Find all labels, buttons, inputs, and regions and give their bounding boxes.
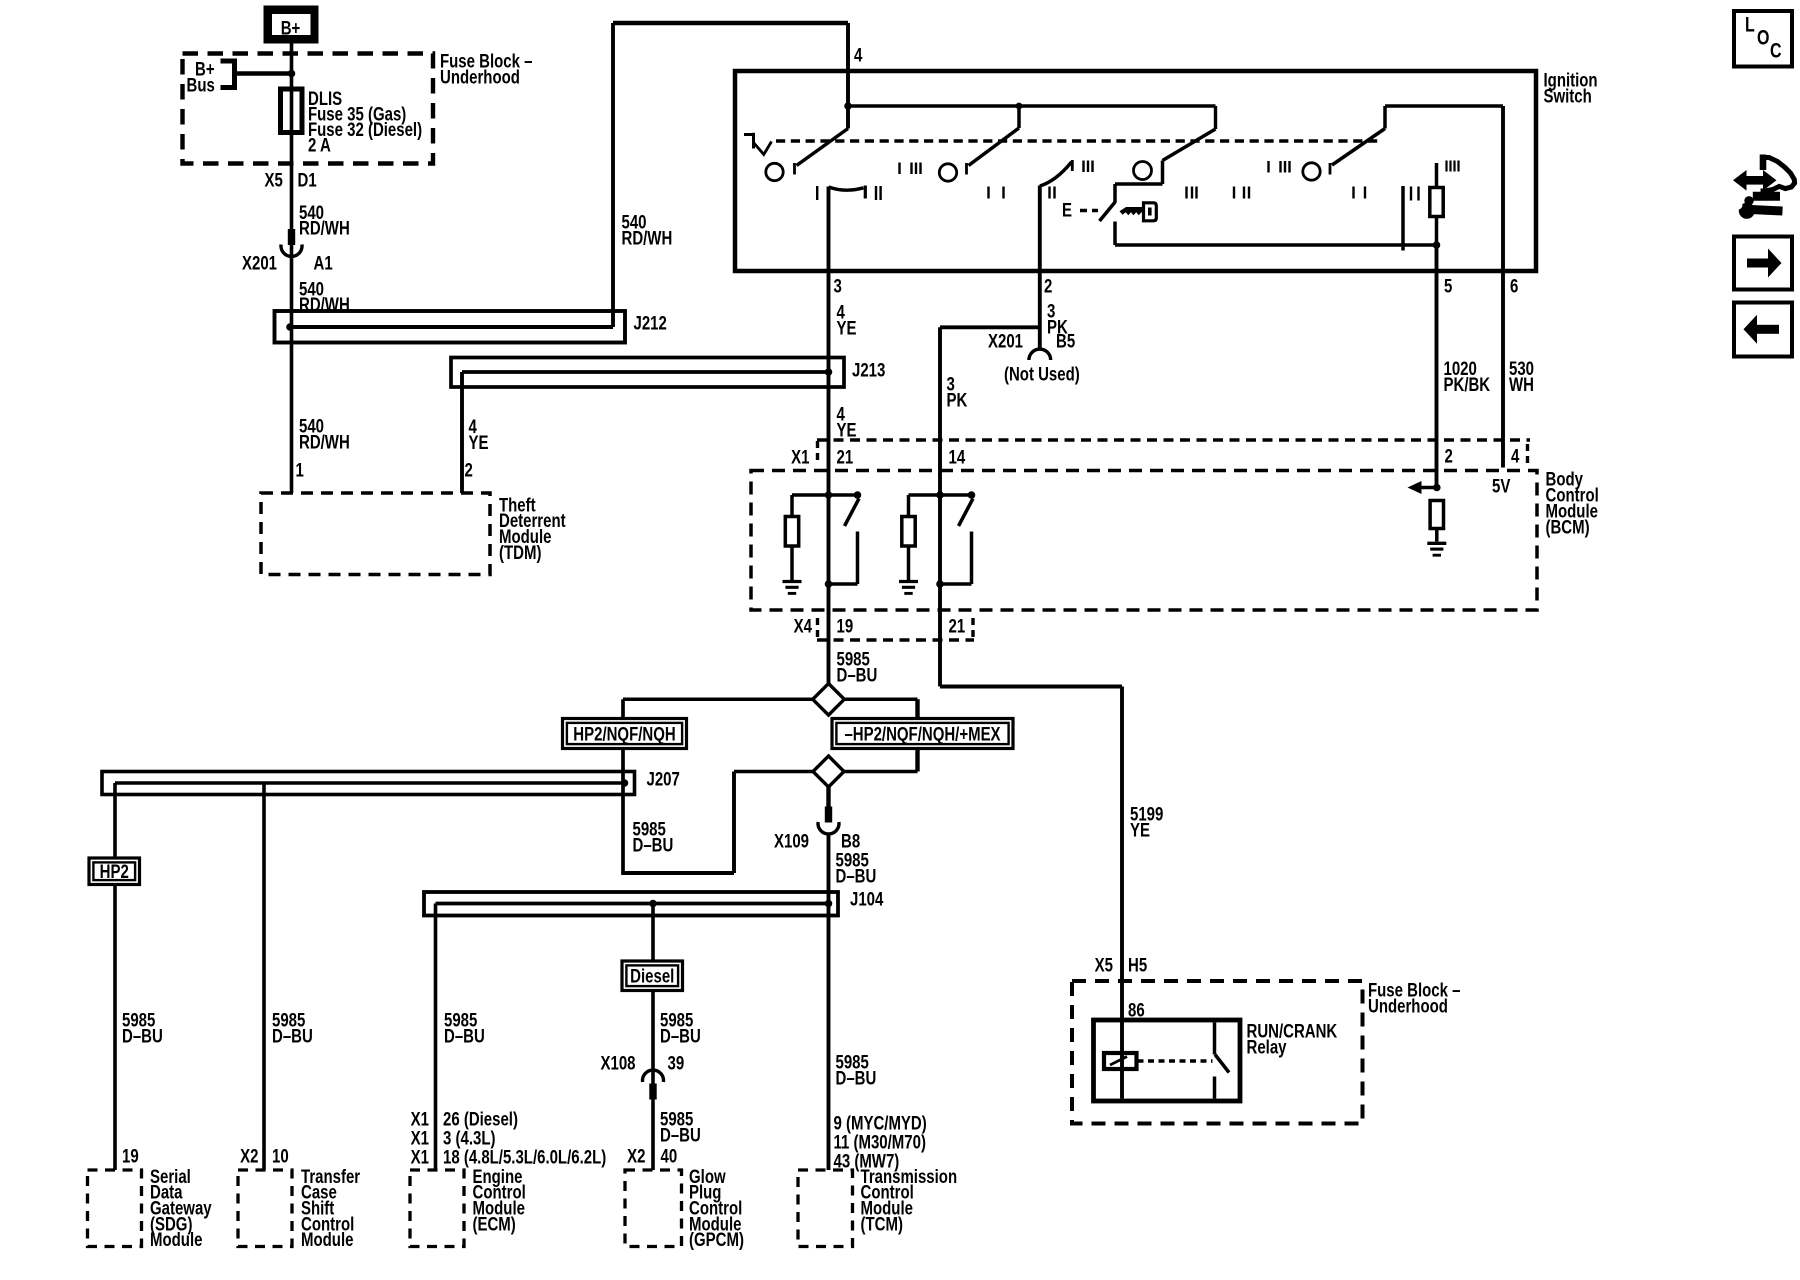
svg-text:86: 86 [1128, 998, 1145, 1020]
svg-text:Relay: Relay [1247, 1035, 1287, 1057]
svg-text:HP2/NQF/NQH: HP2/NQF/NQH [573, 722, 675, 744]
svg-text:(ECM): (ECM) [473, 1212, 516, 1234]
svg-text:19: 19 [837, 614, 854, 636]
svg-text:X201: X201 [988, 329, 1023, 351]
svg-text:PK/BK: PK/BK [1444, 373, 1491, 395]
svg-text:21: 21 [949, 614, 966, 636]
svg-text:PK: PK [947, 388, 968, 410]
svg-text:D–BU: D–BU [836, 1066, 877, 1088]
svg-text:D–BU: D–BU [633, 833, 674, 855]
svg-text:D–BU: D–BU [444, 1024, 485, 1046]
svg-text:(TDM): (TDM) [499, 541, 541, 563]
svg-text:(TCM): (TCM) [861, 1212, 903, 1234]
svg-text:X2: X2 [627, 1144, 645, 1166]
svg-text:D–BU: D–BU [272, 1024, 313, 1046]
svg-text:RD/WH: RD/WH [622, 226, 673, 248]
svg-text:21: 21 [837, 445, 854, 467]
svg-text:X1: X1 [791, 445, 810, 467]
svg-text:YE: YE [837, 418, 857, 440]
svg-text:X4: X4 [794, 614, 813, 636]
svg-text:2: 2 [1044, 274, 1052, 296]
svg-text:D–BU: D–BU [837, 663, 878, 685]
svg-text:14: 14 [949, 445, 966, 467]
svg-text:D–BU: D–BU [836, 864, 877, 886]
svg-text:Switch: Switch [1544, 84, 1592, 106]
svg-text:Underhood: Underhood [440, 65, 520, 87]
svg-text:40: 40 [661, 1144, 678, 1166]
svg-text:J104: J104 [850, 887, 884, 909]
svg-text:Module: Module [301, 1228, 354, 1250]
svg-text:4: 4 [1511, 444, 1520, 466]
svg-text:L: L [1745, 12, 1755, 36]
svg-text:2: 2 [1445, 444, 1453, 466]
svg-text:19: 19 [122, 1144, 139, 1166]
svg-text:J207: J207 [647, 767, 680, 789]
svg-text:Underhood: Underhood [1368, 994, 1448, 1016]
svg-text:X201: X201 [242, 251, 277, 273]
svg-text:Diesel: Diesel [630, 965, 674, 987]
svg-text:O: O [1757, 25, 1769, 49]
svg-text:C: C [1770, 38, 1782, 62]
svg-text:Bus: Bus [187, 73, 215, 95]
svg-text:18 (4.8L/5.3L/6.0L/6.2L): 18 (4.8L/5.3L/6.0L/6.2L) [443, 1145, 606, 1167]
svg-text:WH: WH [1509, 373, 1534, 395]
svg-text:X1: X1 [411, 1145, 430, 1167]
svg-text:HP2: HP2 [100, 860, 129, 882]
svg-text:(GPCM): (GPCM) [689, 1228, 744, 1250]
svg-text:RD/WH: RD/WH [299, 430, 350, 452]
svg-text:5: 5 [1444, 274, 1453, 296]
svg-text:RD/WH: RD/WH [299, 216, 350, 238]
svg-text:(BCM): (BCM) [1546, 515, 1590, 537]
svg-text:10: 10 [272, 1144, 289, 1166]
svg-text:D–BU: D–BU [122, 1024, 163, 1046]
svg-text:X109: X109 [774, 829, 809, 851]
svg-text:B5: B5 [1056, 329, 1075, 351]
svg-text:X2: X2 [240, 1144, 258, 1166]
svg-text:H5: H5 [1128, 953, 1147, 975]
svg-text:E: E [1062, 198, 1072, 220]
svg-text:X108: X108 [600, 1051, 635, 1073]
svg-text:2 A: 2 A [308, 133, 331, 155]
svg-text:X5: X5 [265, 168, 284, 190]
svg-text:1: 1 [296, 458, 305, 480]
svg-text:39: 39 [668, 1051, 685, 1073]
svg-text:X5: X5 [1095, 953, 1114, 975]
svg-text:YE: YE [837, 316, 857, 338]
svg-text:YE: YE [1130, 818, 1150, 840]
svg-text:YE: YE [469, 431, 489, 453]
svg-text:3: 3 [834, 274, 843, 296]
svg-text:J212: J212 [634, 311, 667, 333]
svg-text:–HP2/NQF/NQH/+MEX: –HP2/NQF/NQH/+MEX [844, 722, 1000, 744]
svg-text:D–BU: D–BU [660, 1024, 701, 1046]
svg-text:2: 2 [465, 458, 473, 480]
svg-text:4: 4 [854, 43, 863, 65]
svg-text:J213: J213 [852, 358, 886, 380]
svg-text:D–BU: D–BU [660, 1123, 701, 1145]
svg-text:A1: A1 [314, 251, 333, 273]
svg-text:(Not Used): (Not Used) [1004, 362, 1080, 384]
svg-text:Module: Module [150, 1228, 203, 1250]
svg-text:6: 6 [1510, 274, 1519, 296]
svg-text:B+: B+ [281, 16, 301, 38]
svg-text:D1: D1 [298, 168, 317, 190]
svg-text:5V: 5V [1492, 474, 1511, 496]
